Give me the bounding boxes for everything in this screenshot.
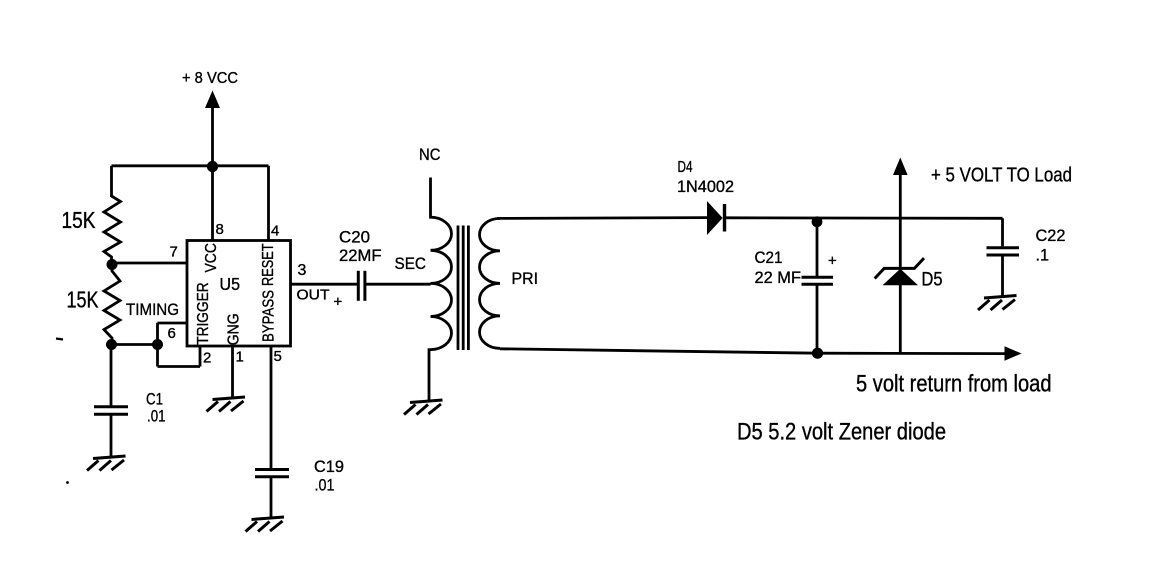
svg-text:.01: .01 <box>147 407 166 426</box>
wire C21 vertical top <box>816 220 819 276</box>
wire top rail from R1 top to pin4 drop <box>112 164 269 167</box>
diode D4 triangle <box>707 201 723 235</box>
resistor R2 15K <box>104 266 120 345</box>
wire C21 vertical bottom <box>816 286 819 354</box>
svg-text:1: 1 <box>236 349 244 366</box>
arrowhead 5 volt return <box>1005 346 1022 361</box>
scan speck dash left edge <box>56 339 63 340</box>
junction dot R2 bottom <box>106 339 117 350</box>
ground below pin 1 <box>207 397 246 412</box>
svg-text:4: 4 <box>271 223 279 240</box>
wire R2 bottom to timing node <box>112 343 159 346</box>
svg-text:D4: D4 <box>678 159 693 176</box>
capacitor C19 plates <box>255 468 289 471</box>
svg-text:5 volt return from load: 5 volt return from load <box>856 371 1052 398</box>
wire pin 7 <box>112 262 187 265</box>
arrowhead +5 volt <box>893 158 908 176</box>
diode D4 cathode bar <box>723 204 726 232</box>
resistor R1 15K <box>104 196 121 261</box>
wire C20 to transformer <box>366 283 431 286</box>
svg-text:C19: C19 <box>314 457 344 476</box>
svg-text:+: + <box>828 253 837 270</box>
wire pin4 drop <box>267 166 270 241</box>
wire top rail PRI to D4 <box>497 216 707 220</box>
svg-text:RESET: RESET <box>260 243 277 286</box>
zener diode D5 triangle <box>883 269 919 286</box>
wire D5 and +5V vertical upper <box>899 174 902 268</box>
svg-text:SEC: SEC <box>395 254 427 273</box>
wire pin 1 <box>231 346 234 397</box>
wire D5 vertical lower <box>899 285 902 353</box>
wire pin 6 <box>158 322 188 325</box>
svg-text:5: 5 <box>274 348 282 365</box>
svg-text:D5 5.2 volt Zener diode: D5 5.2 volt Zener diode <box>737 419 946 446</box>
arrowhead +8 VCC <box>205 91 220 109</box>
junction dot VCC node <box>207 161 218 172</box>
transformer primary winding PRI <box>480 218 501 348</box>
capacitor C22 plates <box>987 246 1020 249</box>
IC U5 box <box>187 241 291 347</box>
ground below C22 <box>978 296 1017 311</box>
svg-text:C20: C20 <box>339 228 370 247</box>
wire pin 3 out <box>292 283 358 286</box>
svg-text:D5: D5 <box>922 270 943 291</box>
wire D4 cathode to C22 corner <box>726 216 1003 219</box>
svg-text:.01: .01 <box>315 476 335 495</box>
ground below C19 <box>246 517 285 532</box>
capacitor C21 plates <box>802 276 834 279</box>
wire VCC vertical into pin 8 <box>211 106 214 241</box>
wire C22 to ground <box>1001 256 1004 296</box>
transformer core <box>457 226 460 351</box>
wire pin 2 riser <box>199 346 202 367</box>
wire C1 drop <box>110 345 113 407</box>
transformer secondary winding SEC <box>429 178 452 401</box>
ground below C1 <box>87 456 126 471</box>
svg-text:VCC: VCC <box>203 243 220 273</box>
svg-text:OUT: OUT <box>297 287 330 304</box>
capacitor C1 plates <box>94 405 128 408</box>
wire C1 to ground <box>110 415 113 456</box>
svg-text:2: 2 <box>203 350 211 367</box>
junction dot between R1 R2 <box>107 259 118 270</box>
junction dot timing node <box>152 339 163 350</box>
junction dot C21 bottom <box>812 348 823 359</box>
ground below transformer SEC <box>404 400 443 415</box>
svg-text:8: 8 <box>216 221 224 238</box>
svg-text:22MF: 22MF <box>339 246 382 265</box>
scan speck dot <box>66 481 69 484</box>
junction dot C21 top <box>812 216 823 227</box>
svg-text:+ 5 VOLT TO Load: + 5 VOLT TO Load <box>931 164 1072 187</box>
wire left drop to R1 <box>110 166 113 197</box>
wire C22 drop <box>1001 218 1004 246</box>
capacitor C20 plates <box>357 271 360 301</box>
svg-text:NC: NC <box>419 145 441 164</box>
svg-text:15K: 15K <box>62 207 96 233</box>
svg-text:GNG: GNG <box>226 313 243 345</box>
wire timing vertical <box>156 323 159 367</box>
svg-text:TRIGGER: TRIGGER <box>195 282 212 345</box>
svg-text:15K: 15K <box>67 287 99 313</box>
wire pin 5 to C19 <box>270 346 273 469</box>
svg-text:BYPASS: BYPASS <box>261 290 278 342</box>
svg-text:7: 7 <box>170 244 178 261</box>
svg-text:U5: U5 <box>220 274 241 294</box>
svg-text:22 MF: 22 MF <box>755 268 802 287</box>
svg-text:C22: C22 <box>1036 226 1066 245</box>
svg-text:1N4002: 1N4002 <box>677 178 734 196</box>
wire timing bottom horizontal <box>158 365 201 368</box>
svg-text:3: 3 <box>298 262 307 279</box>
wire C19 to ground <box>270 478 273 518</box>
svg-text:6: 6 <box>168 325 176 342</box>
wire bottom rail <box>500 349 1006 354</box>
svg-text:TIMING: TIMING <box>126 300 179 319</box>
svg-text:+ 8 VCC: + 8 VCC <box>182 70 238 87</box>
zener diode D5 bar with wings <box>875 258 924 278</box>
svg-text:C21: C21 <box>755 248 783 267</box>
svg-text:+: + <box>334 294 343 311</box>
svg-text:PRI: PRI <box>512 269 539 288</box>
svg-text:.1: .1 <box>1036 246 1050 265</box>
